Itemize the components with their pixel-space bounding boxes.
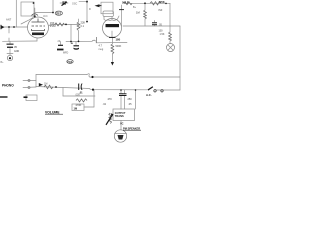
- svg-text:7B7: 7B7: [56, 12, 62, 16]
- svg-text:2.2M: 2.2M: [50, 25, 56, 28]
- svg-text:A.C.: A.C.: [146, 93, 152, 97]
- svg-text:VC: VC: [120, 122, 124, 125]
- svg-text:470: 470: [108, 98, 113, 101]
- svg-text:PHONO: PHONO: [2, 83, 14, 87]
- svg-text:GND: GND: [14, 51, 19, 53]
- svg-text:1M: 1M: [44, 83, 47, 86]
- svg-text:ANT: ANT: [6, 18, 12, 22]
- svg-text:1M: 1M: [74, 107, 78, 111]
- svg-text:180: 180: [116, 37, 121, 41]
- svg-text:.005: .005: [75, 93, 80, 96]
- svg-text:OSC: OSC: [72, 2, 77, 5]
- svg-text:meg: meg: [99, 48, 104, 51]
- svg-text:470K: 470K: [159, 0, 165, 4]
- svg-text:PM SPEAKER: PM SPEAKER: [123, 126, 140, 130]
- svg-text:.05: .05: [128, 103, 132, 106]
- svg-text:1M: 1M: [136, 11, 140, 15]
- svg-text:250: 250: [128, 98, 133, 101]
- svg-text:1.2K: 1.2K: [125, 1, 130, 3]
- svg-text:500K: 500K: [116, 45, 122, 48]
- svg-text:AVC: AVC: [43, 15, 48, 18]
- svg-text:TRANS: TRANS: [115, 114, 124, 118]
- svg-text:INF: INF: [159, 9, 163, 12]
- svg-text:7C6: 7C6: [67, 60, 72, 64]
- svg-text:0.1: 0.1: [81, 25, 85, 28]
- svg-text:.02: .02: [103, 103, 107, 106]
- svg-text:1.5K: 1.5K: [160, 33, 165, 36]
- svg-text:470K: 470K: [76, 104, 82, 107]
- svg-text:MFD: MFD: [63, 52, 68, 55]
